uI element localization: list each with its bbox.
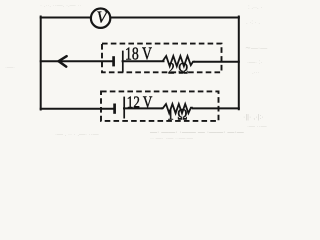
svg-text:12 V: 12 V: [127, 92, 153, 111]
svg-text:.···: .···: [252, 70, 260, 76]
wire bottom-branch right segment: [193, 107, 239, 109]
svg-text:∼—·—: ∼—·—: [245, 45, 267, 52]
wire bottom-branch middle segment: [124, 107, 162, 109]
wire top left (left corner to voltmeter): [41, 17, 90, 19]
wire left vertical: [40, 17, 42, 110]
svg-text:·—· :·: ·—· :·: [247, 60, 262, 66]
resistor R2 zigzag: [161, 104, 193, 113]
paper background: [0, 0, 295, 141]
dashed box around 12V source: [101, 91, 219, 121]
svg-text:·— ··—: ·— ··—: [247, 124, 267, 130]
battery B1 negative plate (short): [112, 56, 115, 66]
svg-text:: .··. ·: : .··. ·: [248, 5, 262, 11]
faint scan noise: [5, 3, 267, 142]
battery B2 positive plate (long): [123, 97, 125, 119]
wire top-branch middle segment: [123, 60, 164, 62]
svg-text:·||· ,·|:·: ·||· ,·|:·: [243, 114, 264, 121]
svg-text:· .··. ··—. ·.— ··: · .··. ··—. ·.— ··: [40, 3, 81, 9]
svg-text:2 Ω: 2 Ω: [168, 61, 188, 78]
voltmeter V1 circle: [91, 9, 110, 28]
svg-text:1 Ω: 1 Ω: [167, 107, 188, 124]
battery B1 positive plate (long): [122, 51, 124, 73]
dashed box around 18V source: [102, 44, 222, 73]
svg-text:·· —· ·— ··—·—: ·· —· ·— ··—·—: [150, 136, 193, 141]
svg-text:—· ——· ·—— — ·——· —·—: —· ——· ·—— — ·——· —·—: [150, 129, 244, 136]
wire right vertical: [238, 17, 240, 110]
wire top-branch left segment: [41, 60, 113, 62]
wire bottom-branch left segment: [41, 108, 115, 110]
current arrow on top branch: [59, 56, 67, 66]
svg-text:. ·: · .: . ·: · .: [246, 20, 260, 26]
wire top-branch right segment: [195, 61, 239, 63]
svg-text:·—·: ·—·: [5, 65, 15, 71]
resistor R1 zigzag: [163, 56, 195, 66]
svg-text:·— . ·· · .—· ··—: ·— . ·· · .—· ··—: [55, 132, 99, 138]
wire top right (voltmeter to right corner): [111, 17, 239, 19]
battery B2 negative plate (short): [113, 104, 116, 114]
svg-text:18 V: 18 V: [125, 44, 152, 64]
